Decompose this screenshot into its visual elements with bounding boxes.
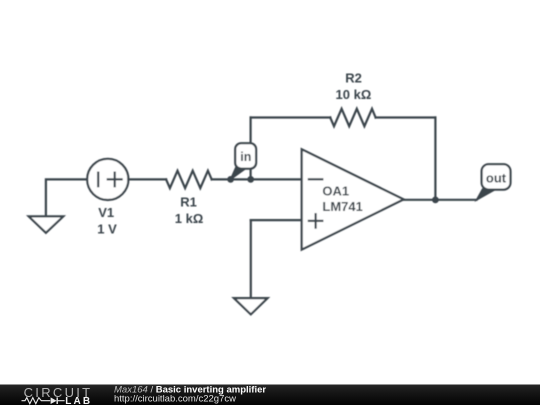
voltage source V1 [87,159,128,200]
CircuitLab logo [22,385,93,405]
junction (feedback meets input wire) [247,176,254,183]
resistor R2 [330,109,375,126]
svg-text:V1: V1 [98,205,114,220]
svg-text:1 V: 1 V [97,221,117,236]
svg-text:out: out [486,170,507,185]
wire (R2 to right corner) [376,116,436,118]
svg-text:OA1: OA1 [322,184,349,199]
svg-text:LM741: LM741 [322,199,362,214]
junction (feedback meets output) [432,197,439,204]
junction (node in pole on wire) [227,176,234,183]
svg-text:R1: R1 [180,195,197,210]
svg-text:1 kΩ: 1 kΩ [175,211,204,226]
wire (op-amp output to node out) [404,199,477,201]
svg-text:LAB: LAB [65,396,92,405]
svg-text:10 kΩ: 10 kΩ [336,87,372,102]
wire (ground to V1 left terminal) [46,179,87,216]
resistor R1 [166,171,212,188]
wire (feedback right vertical down to output) [434,118,436,201]
node in (flag) [230,143,256,179]
footer bar [0,385,540,405]
svg-text:in: in [240,150,251,164]
wire (V1 to R1) [128,178,166,180]
wire (op-amp noninverting input horizontal) [251,219,302,221]
op-amp OA1 [302,149,404,249]
wire (R1 to op-amp inverting input) [212,178,302,180]
wire (feedback top, to R2) [251,116,331,118]
wire (noninverting input down to ground) [250,220,252,298]
svg-text:http://circuitlab.com/c22g7cw: http://circuitlab.com/c22g7cw [114,394,236,405]
ground (under op-amp noninverting input) [234,298,268,314]
ground (left, under V1) [29,216,64,232]
wire (feedback left vertical, node in up to R2) [250,118,252,180]
node out (flag) [476,164,510,200]
svg-text:R2: R2 [345,71,362,86]
